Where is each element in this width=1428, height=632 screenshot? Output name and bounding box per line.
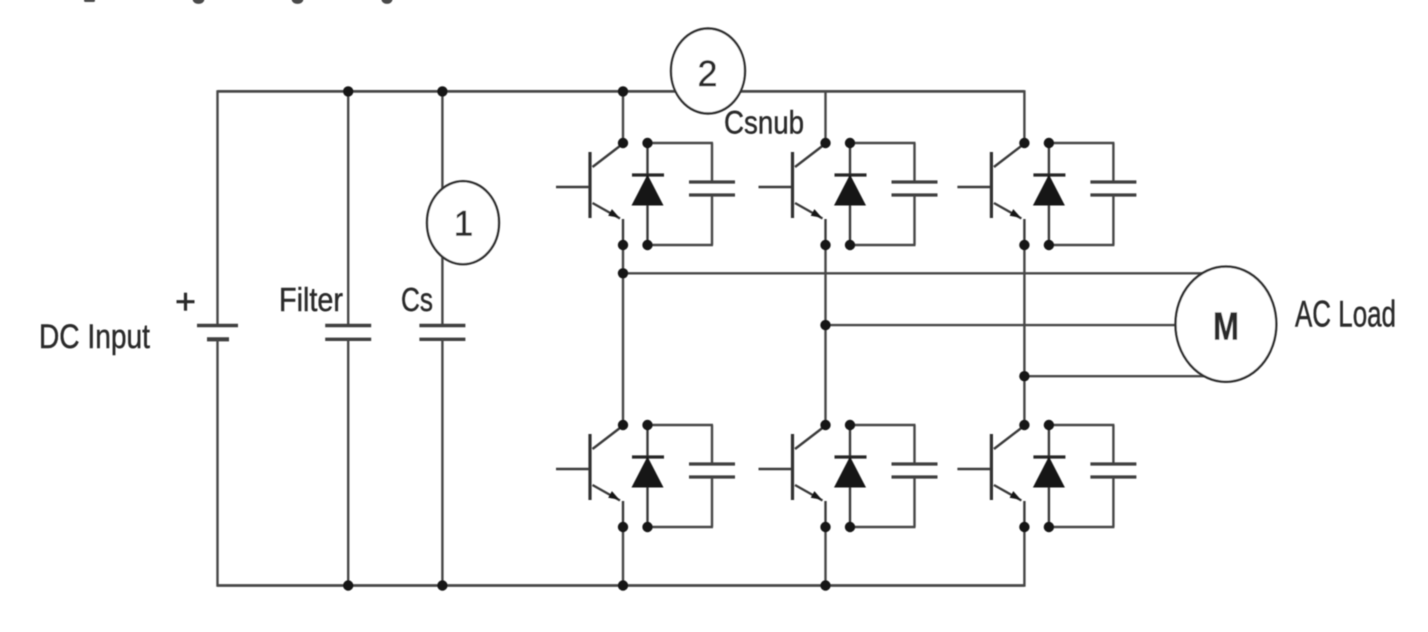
snubber capacitor Csnub5 (1049, 143, 1137, 245)
wire: phase W output (leg3 to motor) (1024, 375, 1204, 377)
wire: left branch upper (rail to battery +) (216, 90, 218, 325)
cropped text remnant 2 (descender tip) (193, 0, 205, 4)
svg-text:AC Load: AC Load (1295, 293, 1396, 334)
wire: Cs branch lower (441, 339, 443, 585)
junction: leg2 bottom rail (820, 580, 830, 590)
diode D1 (anti-parallel) (632, 143, 665, 245)
junction dots of Q3 cell (820, 138, 855, 250)
capacitor Cs top plate (419, 324, 465, 327)
wire: left branch lower (battery - to rail) (216, 339, 218, 586)
junction: phase V tap (820, 320, 830, 330)
svg-text:2: 2 (697, 53, 717, 94)
capacitor Cs bottom plate (419, 338, 465, 341)
wire: negative DC bottom rail (218, 584, 1025, 587)
wire: filter branch lower (347, 339, 349, 585)
wire: leg3 midpoint vertical (1023, 245, 1025, 425)
label Csnub (724, 105, 804, 141)
snubber capacitor Csnub3 (850, 143, 938, 245)
transistor Q2 (IGBT) (556, 426, 623, 527)
junction: filter bottom rail (343, 580, 353, 590)
motor M (AC machine) (1176, 267, 1277, 382)
wire: leg1 bottom stub (622, 527, 624, 586)
junction dots of Q1 cell (618, 138, 653, 250)
snubber capacitor Csnub1 (648, 143, 736, 245)
snubber capacitor Csnub6 (1049, 425, 1137, 527)
wire: leg2 midpoint vertical (824, 245, 826, 425)
callout circle 2 (Csnub) (671, 29, 745, 114)
svg-text:Cs: Cs (401, 281, 433, 318)
wire: leg1 top stub (622, 91, 624, 143)
transistor Q3 (IGBT) (759, 144, 826, 245)
junction: leg1 bottom rail (618, 580, 628, 590)
wire: phase U output (leg1 to motor) (623, 272, 1203, 274)
junction: phase W tap (1019, 371, 1029, 381)
svg-text:DC Input: DC Input (39, 318, 150, 356)
transistor Q5 (IGBT) (957, 144, 1024, 245)
junction: Cs bottom rail (437, 580, 447, 590)
transistor Q1 (IGBT) (556, 144, 623, 245)
cropped text remnant 4 (descender tip) (382, 0, 393, 4)
diode D2 (anti-parallel) (632, 425, 665, 527)
callout circle 1 (Cs) (427, 181, 499, 264)
label AC Load (1295, 293, 1396, 334)
snubber capacitor Csnub4 (850, 425, 938, 527)
cropped text remnant 3 (descender tip) (292, 0, 304, 4)
wire: leg2 bottom stub (824, 527, 826, 586)
wire: top rail corner down to leg 3 (1023, 90, 1025, 143)
wire: leg1 midpoint vertical (622, 245, 624, 425)
wire: leg2 top stub (824, 91, 826, 143)
wire: positive DC top rail (218, 90, 1025, 93)
label Cs (401, 281, 433, 318)
label + (battery positive) (177, 293, 195, 311)
svg-text:Csnub: Csnub (724, 105, 804, 141)
filter capacitor top plate (325, 324, 371, 327)
svg-text:M: M (1213, 305, 1239, 348)
filter capacitor bottom plate (325, 338, 371, 341)
junction dots of Q6 cell (1019, 420, 1054, 532)
junction dots of Q4 cell (820, 420, 855, 532)
label DC Input (39, 318, 150, 356)
wire: filter branch upper (347, 91, 349, 325)
wire: bottom rail corner up to leg 3 (1023, 527, 1025, 587)
junction: leg1 top rail (618, 86, 628, 96)
junction: Cs top rail (437, 86, 447, 96)
cropped text remnant 1 (descender tip) (84, 0, 95, 2)
battery V1 negative plate (short) (207, 337, 229, 341)
transistor Q4 (IGBT) (759, 426, 826, 527)
battery V1 positive plate (long) (197, 324, 238, 328)
diode D3 (anti-parallel) (834, 143, 867, 245)
junction dots of Q5 cell (1019, 138, 1054, 250)
diode D6 (anti-parallel) (1033, 425, 1066, 527)
svg-text:1: 1 (454, 205, 473, 244)
junction: filter top rail (343, 86, 353, 96)
wire: phase V output (leg2 to motor) (826, 324, 1177, 326)
transistor Q6 (IGBT) (957, 426, 1024, 527)
svg-text:Filter: Filter (279, 281, 343, 318)
diode D5 (anti-parallel) (1033, 143, 1066, 245)
junction dots of Q2 cell (618, 420, 653, 532)
junction: phase U tap (618, 268, 628, 278)
snubber capacitor Csnub2 (648, 425, 736, 527)
wire: Cs branch upper (441, 91, 443, 325)
diode D4 (anti-parallel) (834, 425, 867, 527)
label Filter (279, 281, 343, 318)
